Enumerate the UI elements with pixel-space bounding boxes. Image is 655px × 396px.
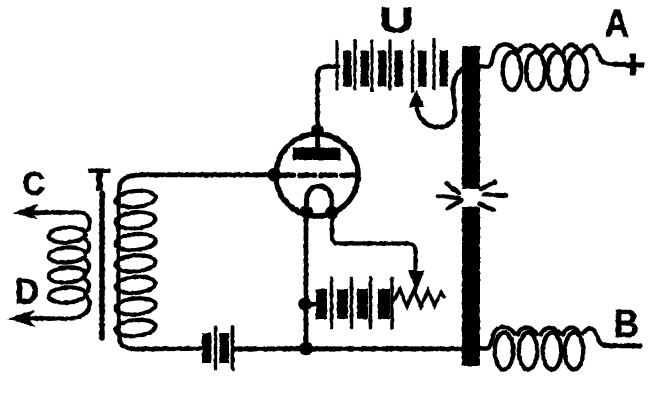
label A [606, 10, 629, 37]
wire: plate lead up to battery U [315, 131, 320, 148]
transformer T secondary coil (left, to C and D) [48, 213, 90, 304]
heavy electrode bar (upper section) [462, 46, 480, 189]
wire: bottom wire right of filament battery [233, 346, 462, 351]
filament (inverted U) [307, 186, 332, 213]
wire: bottom wire left of filament battery [136, 346, 200, 351]
battery U (plate battery) cells [337, 40, 448, 92]
triode tube envelope [276, 134, 358, 216]
spark flash rays at gap [438, 182, 506, 210]
label T [89, 169, 110, 190]
battery C (bias battery) cells [305, 278, 392, 328]
transformer T primary coil (right) [115, 189, 156, 341]
rheostat R (zigzag) [392, 290, 444, 307]
coil A (top right) [479, 44, 613, 89]
coil B (bottom right) [479, 327, 611, 369]
label C [24, 172, 44, 195]
wire: primary top lead hook [119, 175, 142, 190]
grid (dashed line) [279, 172, 356, 177]
wire to plus terminal [613, 62, 625, 67]
transformer T core [99, 193, 105, 338]
tap arrow from bar onto battery U [410, 69, 463, 127]
lead and arrow terminal C [15, 205, 80, 219]
junction dot: filament leg at bottom wire [299, 342, 313, 356]
wire: primary bottom lead to bottom wire [120, 339, 139, 349]
wire: right filament leg to rheostat arm [332, 212, 416, 274]
label D [17, 279, 37, 304]
junction dot: filament left at tube bottom [300, 205, 314, 219]
plate (filled rectangle) [293, 148, 341, 161]
plus terminal [625, 54, 645, 76]
junction dot: plate lead at tube top [311, 124, 325, 138]
label B [616, 310, 637, 337]
wire: grid wire to tube [140, 172, 276, 177]
label U [382, 8, 411, 33]
junction dot: grid lead at tube left [267, 168, 281, 182]
wire: left filament leg down to bottom wire [304, 212, 309, 349]
wire at terminal B [611, 343, 640, 348]
junction dot: C battery tap on filament leg [298, 297, 312, 311]
lead and arrow terminal D [10, 297, 90, 326]
heavy electrode bar (lower section) [462, 207, 480, 366]
filament battery (2 cells) in bottom wire [202, 327, 233, 369]
rheostat arm arrowhead [410, 272, 424, 289]
junction dot: filament right at tube bottom [325, 206, 339, 220]
